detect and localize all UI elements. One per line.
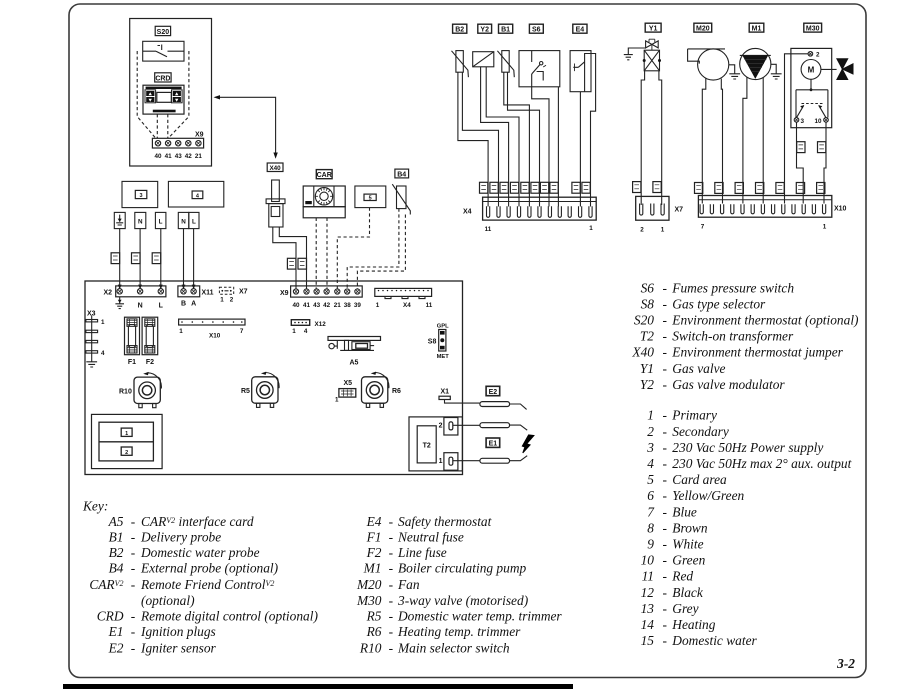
X4 board connector — [375, 288, 432, 298]
wire earth to X2 — [119, 229, 121, 286]
B4 dashed wire to pin 39 — [357, 215, 405, 289]
svg-text:-: - — [663, 553, 667, 568]
svg-text:1: 1 — [101, 319, 105, 326]
svg-text:X9: X9 — [195, 131, 204, 138]
svg-text:X4: X4 — [463, 209, 472, 216]
svg-text:T2: T2 — [640, 329, 654, 344]
svg-text:43: 43 — [313, 302, 321, 309]
svg-text:Environment thermostat (option: Environment thermostat (optional) — [671, 313, 859, 328]
legend key left column 1 — [82, 498, 318, 655]
svg-text:1: 1 — [335, 397, 339, 404]
svg-text:B4: B4 — [397, 171, 406, 178]
svg-text:B1: B1 — [109, 529, 124, 544]
svg-text:Remote digital control (option: Remote digital control (optional) — [140, 608, 318, 623]
svg-text:B1: B1 — [501, 27, 510, 34]
svg-text:Line fuse: Line fuse — [397, 545, 447, 560]
svg-text:-: - — [131, 624, 135, 639]
X3 pin header — [86, 316, 98, 368]
A5 interface card — [328, 337, 381, 351]
svg-text:R6: R6 — [366, 624, 382, 639]
svg-text:Y1: Y1 — [640, 361, 654, 376]
Y1 valve body with X — [643, 50, 661, 71]
svg-text:2: 2 — [439, 423, 443, 430]
wire T2 pin1 to ignition plug — [453, 460, 480, 462]
svg-text:E1: E1 — [489, 441, 498, 448]
Y1 wires to X7 plug — [641, 71, 644, 205]
svg-text:R10: R10 — [359, 640, 382, 655]
fuse F2 — [142, 317, 158, 355]
svg-text:-: - — [663, 296, 667, 311]
svg-text:T2: T2 — [423, 443, 431, 450]
svg-text:-: - — [663, 633, 667, 648]
svg-text:-: - — [131, 608, 135, 623]
svg-text:2: 2 — [647, 424, 654, 439]
svg-text:X40: X40 — [269, 165, 281, 172]
X40 wire to pin 41 — [279, 227, 306, 289]
X40 label — [267, 163, 283, 172]
E4 wire to X4 slot10 — [579, 92, 581, 207]
CRD label — [155, 73, 171, 83]
inline connectors row above X4 — [480, 182, 591, 193]
svg-text:4: 4 — [101, 350, 105, 357]
Y2 wire to X4 slot4 — [486, 67, 519, 207]
svg-text:B2: B2 — [109, 545, 124, 560]
svg-text:-: - — [131, 577, 135, 592]
pin labels 40 41 43 42 21 — [154, 153, 202, 160]
svg-text:3: 3 — [801, 118, 805, 125]
svg-text:R5: R5 — [241, 388, 250, 395]
inline connector on X40 wire 41 — [298, 258, 307, 269]
Y2 gas valve modulator — [473, 52, 494, 67]
inline connector on earth wire — [111, 253, 120, 264]
svg-text:B: B — [181, 301, 186, 308]
footer black bar — [63, 684, 573, 689]
svg-text:-: - — [663, 408, 667, 423]
box 4 (aux output area) — [168, 181, 223, 207]
M30 terminal 2 — [808, 52, 820, 59]
fuse F1 — [125, 317, 140, 355]
svg-text:M20: M20 — [356, 577, 382, 592]
X7 plug housing — [636, 196, 669, 220]
svg-text:Heating temp. trimmer: Heating temp. trimmer — [397, 624, 521, 639]
S8 gas type selector — [439, 330, 446, 352]
svg-text:21: 21 — [195, 153, 203, 160]
svg-text:41: 41 — [303, 302, 311, 309]
X40 jumper plug — [266, 180, 285, 227]
svg-text:3: 3 — [139, 193, 142, 199]
E4 label — [573, 24, 587, 33]
X2 terminal strip — [116, 286, 166, 297]
svg-text:Neutral fuse: Neutral fuse — [397, 529, 464, 544]
svg-text:E4: E4 — [366, 514, 382, 529]
svg-text:7: 7 — [240, 328, 244, 335]
B4 label — [395, 169, 409, 178]
svg-text:F1: F1 — [366, 529, 382, 544]
svg-text:Domestic water: Domestic water — [671, 633, 757, 648]
svg-text:E2: E2 — [489, 389, 498, 396]
svg-text:E1: E1 — [108, 624, 124, 639]
svg-text:CRD: CRD — [97, 608, 124, 623]
CAR label — [316, 170, 332, 179]
svg-text:Fumes pressure switch: Fumes pressure switch — [671, 280, 794, 295]
motorised valve symbol — [821, 59, 853, 80]
svg-text:L: L — [159, 218, 163, 225]
svg-text:S8: S8 — [428, 339, 437, 346]
svg-text:Green: Green — [672, 553, 705, 568]
X9 board pin labels — [292, 302, 361, 309]
svg-text:A5: A5 — [108, 514, 124, 529]
arrowheads into X2/X11 terminals — [118, 285, 196, 290]
X11 terminal strip — [178, 286, 200, 297]
svg-text:40: 40 — [292, 302, 300, 309]
svg-text:-: - — [663, 585, 667, 600]
svg-text:S6: S6 — [532, 27, 541, 34]
M20 fan — [688, 49, 729, 80]
svg-text:Blue: Blue — [672, 504, 697, 519]
main board outline — [85, 281, 463, 475]
X1 wire to igniter sensor — [445, 400, 480, 404]
inline connector on X40 wire 40 — [287, 258, 296, 269]
svg-text:230 Vac 50Hz max 2° aux. outpu: 230 Vac 50Hz max 2° aux. output — [672, 456, 851, 471]
svg-text:External probe (optional): External probe (optional) — [140, 561, 279, 576]
svg-text:X7: X7 — [675, 207, 684, 214]
S20 label — [155, 26, 170, 36]
svg-text:-: - — [663, 440, 667, 455]
svg-text:21: 21 — [334, 302, 342, 309]
svg-text:-: - — [663, 569, 667, 584]
svg-text:Boiler circulating pump: Boiler circulating pump — [398, 561, 526, 576]
svg-text:-: - — [663, 617, 667, 632]
thermostat switch S20 — [143, 41, 184, 61]
svg-text:E2: E2 — [108, 640, 124, 655]
S6 fumes pressure switch — [519, 51, 560, 87]
svg-text:R6: R6 — [392, 388, 401, 395]
svg-text:CRD: CRD — [155, 75, 170, 82]
svg-text:Card area: Card area — [672, 472, 727, 487]
svg-text:F2: F2 — [366, 545, 382, 560]
svg-text:M30: M30 — [806, 26, 820, 33]
svg-text:1: 1 — [376, 302, 380, 309]
svg-text:X10: X10 — [834, 206, 847, 213]
svg-text:F1: F1 — [128, 359, 136, 366]
dashed enclosure around CRD — [137, 51, 189, 138]
card area box 5 — [355, 186, 386, 208]
svg-text:1: 1 — [589, 225, 593, 232]
svg-text:-: - — [663, 280, 667, 295]
svg-text:5: 5 — [369, 196, 372, 202]
svg-text:-: - — [663, 601, 667, 616]
svg-text:Secondary: Secondary — [672, 424, 729, 439]
pump ground — [771, 64, 782, 79]
svg-text:1: 1 — [292, 328, 296, 335]
E4 safety thermostat — [570, 51, 591, 92]
svg-text:(optional): (optional) — [141, 593, 195, 608]
S20/CRD enclosure box — [130, 19, 212, 167]
fan ground — [729, 65, 740, 79]
svg-text:11: 11 — [485, 226, 492, 233]
svg-text:Domestic water probe: Domestic water probe — [140, 545, 260, 560]
N terminal box — [135, 212, 146, 228]
svg-text:CAR: CAR — [317, 172, 332, 179]
svg-text:14: 14 — [641, 617, 655, 632]
svg-text:-: - — [663, 537, 667, 552]
svg-text:-: - — [389, 577, 393, 592]
inline connector on N wire — [132, 253, 141, 264]
X4 board labels — [376, 302, 433, 309]
svg-text:10: 10 — [814, 118, 822, 125]
svg-text:1: 1 — [823, 224, 827, 231]
M1 circulating pump — [740, 48, 771, 79]
svg-text:Gas valve modulator: Gas valve modulator — [672, 377, 785, 392]
svg-text:X40: X40 — [631, 345, 654, 360]
svg-text:CARV2 interface card: CARV2 interface card — [141, 514, 254, 529]
svg-text:2: 2 — [640, 227, 644, 234]
svg-text:43: 43 — [175, 153, 183, 160]
X4 plug housing — [483, 197, 597, 220]
svg-text:1: 1 — [439, 458, 443, 465]
svg-text:L: L — [192, 218, 196, 225]
svg-text:X12: X12 — [315, 321, 327, 328]
svg-text:38: 38 — [344, 302, 352, 309]
svg-text:-: - — [663, 424, 667, 439]
svg-text:X9: X9 — [280, 290, 289, 297]
fan wires to X10 — [702, 78, 706, 203]
svg-text:-: - — [389, 545, 393, 560]
B2 label — [453, 24, 467, 33]
svg-text:-: - — [663, 472, 667, 487]
svg-text:X5: X5 — [344, 380, 353, 387]
svg-text:L: L — [159, 303, 164, 310]
svg-text:-: - — [131, 514, 135, 529]
svg-text:Brown: Brown — [672, 520, 708, 535]
CAR remote friend control unit — [303, 186, 345, 218]
pump wires to X10 — [743, 77, 747, 203]
svg-text:11: 11 — [642, 569, 654, 584]
svg-text:39: 39 — [354, 302, 362, 309]
M30 switch contacts — [794, 79, 828, 125]
legend key left column 2 — [356, 514, 562, 656]
lightning bolt spark symbol — [522, 435, 534, 453]
M30 wire from terminal 2 to X10 — [785, 54, 809, 204]
legend right list components — [631, 280, 859, 392]
svg-text:230 Vac 50Hz Power supply: 230 Vac 50Hz Power supply — [672, 440, 823, 455]
M30 3-way valve enclosure — [791, 48, 832, 127]
inline connectors on Y1 wires — [633, 182, 662, 193]
R10 main selector switch — [134, 372, 161, 408]
svg-text:A: A — [191, 301, 196, 308]
M30 wire from terminal 3 to X10 — [797, 122, 804, 203]
Y1 gas valve coil symbol — [624, 39, 658, 60]
svg-text:1: 1 — [647, 408, 654, 423]
earth terminal box — [114, 212, 125, 228]
svg-text:E4: E4 — [576, 27, 585, 34]
svg-text:4: 4 — [304, 328, 308, 335]
B1 wire to X4 slot5 — [504, 72, 530, 206]
selector block box — [92, 414, 163, 468]
Y1 label — [645, 23, 661, 32]
svg-text:-: - — [389, 561, 393, 576]
L terminal box (aux) — [189, 212, 199, 228]
inline connectors row above X10 — [695, 183, 825, 194]
B2 wire to X4 slot2 — [462, 72, 498, 206]
svg-text:-: - — [389, 593, 393, 608]
S6 wire to X4 slot7 — [532, 87, 549, 207]
earth symbol under X2 — [115, 297, 124, 309]
B1 delivery probe — [497, 51, 514, 78]
svg-text:11: 11 — [426, 302, 433, 309]
B2 wire to X4 slot1 — [458, 72, 488, 206]
svg-text:Main selector switch: Main selector switch — [397, 640, 510, 655]
arrow from X40 to CRD box — [214, 95, 278, 159]
Y2 label — [478, 24, 492, 33]
transformer T2 box — [409, 417, 462, 471]
R6 heating trimmer — [362, 372, 389, 408]
svg-text:N: N — [138, 303, 143, 310]
svg-text:S8: S8 — [641, 296, 655, 311]
svg-text:-: - — [131, 640, 135, 655]
svg-text:N: N — [138, 218, 143, 225]
igniter sensor electrode E2 — [480, 402, 527, 410]
svg-text:6: 6 — [647, 488, 654, 503]
svg-text:Domestic water temp. trimmer: Domestic water temp. trimmer — [397, 608, 562, 623]
E1 label — [486, 438, 500, 448]
legend right numbered list — [641, 408, 852, 648]
svg-text:R10: R10 — [119, 389, 132, 396]
X40 wire to pin 40 — [273, 227, 296, 289]
svg-text:S20: S20 — [157, 29, 170, 36]
svg-text:Gas type selector: Gas type selector — [672, 296, 766, 311]
svg-text:M1: M1 — [752, 26, 762, 33]
M1 label — [749, 23, 764, 32]
CRD remote digital control unit — [143, 85, 184, 114]
svg-text:-: - — [131, 561, 135, 576]
B1 wire to X4 slot6 — [508, 72, 540, 206]
X9 remote terminal strip — [152, 138, 203, 148]
svg-text:Key:: Key: — [82, 498, 108, 513]
svg-text:-: - — [663, 345, 667, 360]
svg-text:2: 2 — [125, 450, 128, 456]
ignition plug electrode (bottom) — [480, 456, 527, 463]
svg-text:Ignition plugs: Ignition plugs — [140, 624, 216, 639]
svg-text:15: 15 — [641, 633, 655, 648]
svg-text:1: 1 — [179, 328, 183, 335]
svg-text:7: 7 — [701, 224, 705, 231]
svg-text:X10: X10 — [209, 332, 221, 339]
svg-text:B4: B4 — [109, 561, 124, 576]
ignition plug electrode (top) — [480, 423, 527, 431]
svg-text:3-way valve (motorised): 3-way valve (motorised) — [397, 593, 529, 608]
svg-text:Delivery probe: Delivery probe — [140, 529, 221, 544]
svg-text:2: 2 — [230, 297, 234, 304]
svg-text:-: - — [663, 329, 667, 344]
svg-text:10: 10 — [641, 553, 655, 568]
svg-text:41: 41 — [165, 153, 173, 160]
svg-text:3: 3 — [646, 440, 654, 455]
svg-text:M: M — [808, 66, 815, 75]
svg-text:A5: A5 — [350, 360, 359, 367]
svg-text:5: 5 — [647, 472, 654, 487]
svg-text:9: 9 — [647, 537, 654, 552]
Y2 wire to X4 slot3 — [481, 67, 509, 207]
svg-text:-: - — [663, 520, 667, 535]
svg-text:-: - — [389, 514, 393, 529]
dashed wire card5 to pin 21 — [337, 208, 369, 289]
B2 domestic water probe — [452, 51, 469, 78]
svg-text:Fan: Fan — [397, 577, 420, 592]
svg-text:Heating: Heating — [671, 617, 715, 632]
M30 wire from terminal 10 to X10 — [824, 122, 826, 203]
svg-text:3-2: 3-2 — [836, 656, 855, 671]
svg-text:Y2: Y2 — [480, 27, 489, 34]
wire L to X2 — [160, 229, 162, 286]
svg-text:1: 1 — [125, 431, 128, 437]
svg-text:12: 12 — [641, 585, 655, 600]
svg-text:-: - — [663, 488, 667, 503]
svg-text:42: 42 — [185, 153, 193, 160]
svg-text:40: 40 — [154, 153, 162, 160]
inline connectors under M30 — [797, 142, 826, 153]
inline connector on L wire — [152, 253, 161, 264]
svg-text:Primary: Primary — [671, 408, 717, 423]
svg-text:S20: S20 — [634, 313, 654, 328]
S6 wire to X4 slot8 — [557, 87, 559, 207]
svg-text:Black: Black — [672, 585, 704, 600]
B4 dashed wire to pin 38 — [347, 209, 399, 289]
N terminal box (aux) — [178, 212, 189, 228]
wire N to X11 — [183, 229, 185, 286]
svg-text:Grey: Grey — [672, 601, 698, 616]
svg-text:-: - — [663, 456, 667, 471]
svg-text:-: - — [663, 377, 667, 392]
X10 plug housing — [698, 196, 831, 218]
svg-text:Y1: Y1 — [649, 26, 658, 33]
X10 board strip — [179, 319, 245, 325]
svg-text:M30: M30 — [356, 593, 382, 608]
svg-text:1: 1 — [220, 297, 224, 304]
svg-text:B2: B2 — [455, 27, 464, 34]
svg-text:Igniter sensor: Igniter sensor — [140, 640, 217, 655]
svg-text:MET: MET — [437, 354, 450, 360]
box 3 (power supply area) — [122, 181, 158, 207]
svg-text:X1: X1 — [441, 388, 450, 395]
M30 label — [804, 23, 822, 32]
svg-text:13: 13 — [641, 601, 655, 616]
X9 board terminal strip — [291, 286, 363, 297]
wire N to X2 — [139, 229, 141, 286]
svg-text:-: - — [131, 529, 135, 544]
svg-text:Environment thermostat jumper: Environment thermostat jumper — [671, 345, 843, 360]
svg-text:4: 4 — [647, 456, 654, 471]
E4 wire loop to X4 slot11 — [585, 54, 596, 207]
svg-text:X7: X7 — [239, 289, 248, 296]
svg-text:-: - — [663, 504, 667, 519]
svg-text:N: N — [181, 218, 186, 225]
svg-text:Remote Friend ControlV2: Remote Friend ControlV2 — [140, 577, 274, 592]
wire A to X11 — [193, 229, 195, 286]
svg-text:-: - — [131, 545, 135, 560]
svg-text:Yellow/Green: Yellow/Green — [672, 488, 744, 503]
svg-text:Y2: Y2 — [640, 377, 654, 392]
svg-text:White: White — [672, 537, 703, 552]
svg-text:Red: Red — [671, 569, 693, 584]
svg-text:F2: F2 — [146, 359, 154, 366]
E2 label — [486, 386, 500, 396]
svg-text:1: 1 — [661, 227, 665, 234]
svg-text:M20: M20 — [696, 26, 710, 33]
svg-text:R5: R5 — [366, 608, 382, 623]
svg-text:S6: S6 — [641, 280, 655, 295]
X7 dashed spare connector — [219, 287, 233, 294]
